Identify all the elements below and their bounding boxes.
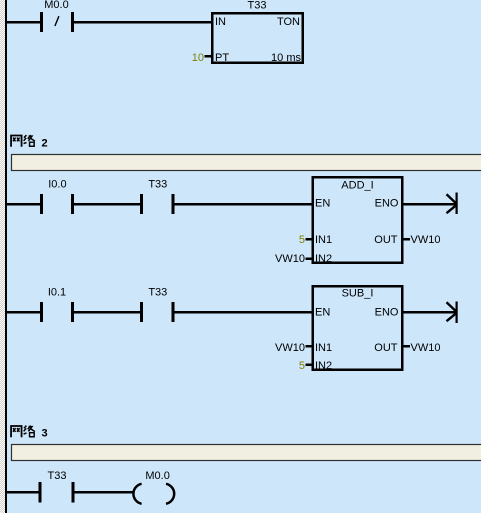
svg-text:OUT: OUT [374, 234, 398, 246]
svg-text:I0.1: I0.1 [48, 287, 66, 299]
svg-text:T33: T33 [148, 287, 167, 299]
svg-text:2: 2 [42, 137, 48, 149]
svg-text:T33: T33 [248, 0, 267, 11]
svg-text:3: 3 [42, 428, 48, 440]
svg-text:IN2: IN2 [315, 360, 332, 372]
svg-text:ADD_I: ADD_I [341, 180, 373, 192]
svg-text:VW10: VW10 [411, 342, 441, 354]
svg-text:T33: T33 [48, 470, 67, 482]
svg-text:M0.0: M0.0 [145, 470, 169, 482]
svg-text:5: 5 [299, 234, 305, 246]
svg-text:TON: TON [277, 16, 300, 28]
svg-text:T33: T33 [148, 178, 167, 190]
svg-text:I0.0: I0.0 [48, 178, 66, 190]
svg-text:IN2: IN2 [315, 253, 332, 265]
svg-text:ENO: ENO [375, 198, 399, 210]
svg-text:VW10: VW10 [411, 234, 441, 246]
svg-text:VW10: VW10 [275, 253, 305, 265]
svg-text:M0.0: M0.0 [44, 0, 68, 11]
svg-text:IN: IN [215, 16, 226, 28]
svg-text:ENO: ENO [375, 307, 399, 319]
svg-text:SUB_I: SUB_I [342, 288, 374, 300]
svg-text:EN: EN [315, 307, 330, 319]
svg-text:EN: EN [315, 198, 330, 210]
svg-text:5: 5 [299, 360, 305, 372]
svg-text:10 ms: 10 ms [271, 52, 301, 64]
svg-text:VW10: VW10 [275, 342, 305, 354]
svg-text:OUT: OUT [374, 342, 398, 354]
svg-text:IN1: IN1 [315, 342, 332, 354]
svg-text:IN1: IN1 [315, 234, 332, 246]
svg-text:10: 10 [192, 52, 204, 64]
svg-text:PT: PT [215, 52, 229, 64]
